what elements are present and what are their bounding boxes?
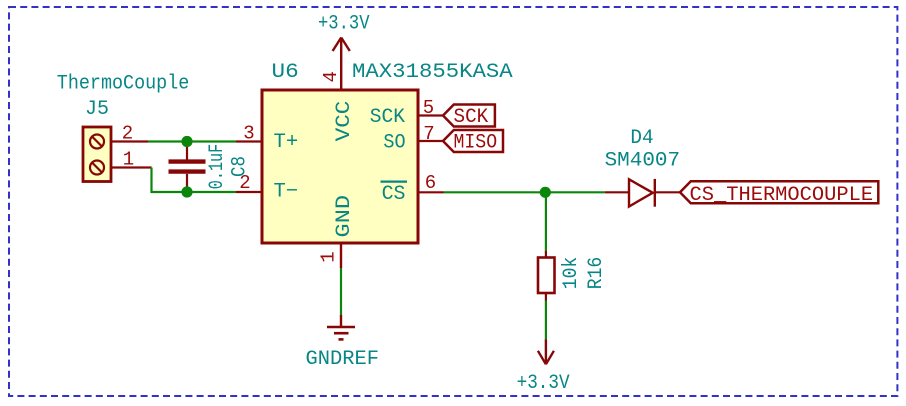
pin 1 stub (GND bottom) bbox=[340, 243, 342, 268]
svg-text:2: 2 bbox=[239, 172, 250, 194]
svg-text:CS_THERMOCOUPLE: CS_THERMOCOUPLE bbox=[690, 184, 874, 207]
svg-text:SO: SO bbox=[383, 131, 405, 154]
svg-text:SM4007: SM4007 bbox=[605, 149, 681, 172]
svg-text:D4: D4 bbox=[630, 127, 653, 150]
svg-text:SCK: SCK bbox=[370, 106, 405, 129]
svg-text:+3.3V: +3.3V bbox=[318, 13, 370, 36]
capacitor C8 bbox=[169, 142, 206, 193]
global label MISO bbox=[443, 130, 503, 155]
svg-text:ThermoCouple: ThermoCouple bbox=[57, 73, 190, 96]
svg-text:+3.3V: +3.3V bbox=[517, 372, 570, 395]
svg-text:VCC: VCC bbox=[333, 101, 356, 142]
ground GNDREF bbox=[327, 315, 355, 339]
power symbol +3.3V top bbox=[333, 38, 350, 52]
svg-text:J5: J5 bbox=[85, 98, 109, 121]
diode D4 bbox=[605, 179, 680, 207]
pin 4 stub (VCC top) bbox=[340, 39, 342, 90]
svg-text:GND: GND bbox=[333, 195, 356, 238]
svg-text:CS: CS bbox=[382, 183, 406, 206]
junction CS net bbox=[540, 187, 551, 198]
svg-text:0.1uF: 0.1uF bbox=[206, 144, 229, 190]
svg-text:MAX31855KASA: MAX31855KASA bbox=[352, 61, 513, 84]
pin 5 stub (SCK) bbox=[418, 114, 443, 116]
svg-text:GNDREF: GNDREF bbox=[306, 348, 380, 371]
global label SCK bbox=[443, 105, 495, 130]
wire junction down to resistor bbox=[545, 192, 547, 251]
junction top (cap/T+) bbox=[181, 136, 192, 147]
junction bottom (cap/T-) bbox=[181, 186, 192, 197]
svg-text:1: 1 bbox=[318, 251, 340, 262]
pin 7 stub (SO) bbox=[418, 140, 443, 142]
pin 6 stub (CS) bbox=[418, 191, 444, 193]
svg-text:T−: T− bbox=[274, 180, 299, 203]
svg-text:SCK: SCK bbox=[454, 106, 489, 129]
connector J5 bbox=[83, 127, 111, 182]
resistor R16 bbox=[538, 251, 555, 301]
svg-text:T+: T+ bbox=[274, 131, 299, 154]
svg-text:R16: R16 bbox=[585, 257, 608, 290]
svg-text:6: 6 bbox=[425, 172, 436, 194]
svg-text:U6: U6 bbox=[272, 61, 299, 84]
wire resistor to power bbox=[545, 301, 547, 340]
svg-text:MISO: MISO bbox=[454, 132, 498, 155]
pin name CS with overline bbox=[381, 182, 408, 206]
svg-text:2: 2 bbox=[122, 123, 133, 145]
pin 3 stub (T+) bbox=[236, 140, 262, 142]
pin 2 stub (T-) bbox=[236, 191, 262, 193]
wire GND bbox=[340, 268, 342, 315]
svg-text:3: 3 bbox=[243, 123, 254, 145]
power symbol +3.3V bottom bbox=[538, 340, 554, 365]
wire CS to junction to diode bbox=[444, 191, 605, 193]
svg-text:5: 5 bbox=[423, 97, 434, 119]
J5 pin 2 stub bbox=[111, 140, 148, 142]
svg-text:10k: 10k bbox=[560, 257, 583, 290]
global label CS_THERMOCOUPLE bbox=[680, 181, 878, 207]
wire pin1 down bbox=[152, 168, 237, 193]
svg-text:1: 1 bbox=[123, 149, 134, 171]
svg-text:4: 4 bbox=[320, 71, 342, 82]
op-amp U6 body bbox=[262, 90, 418, 243]
svg-text:7: 7 bbox=[423, 123, 434, 145]
J5 pin 1 stub bbox=[111, 166, 152, 168]
wire pin2 to junction to T+ bbox=[148, 140, 236, 142]
